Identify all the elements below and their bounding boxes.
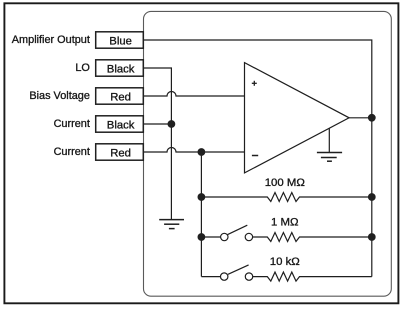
svg-text:Blue: Blue (109, 35, 132, 47)
terminal Bias Voltage (Red) (29, 88, 143, 104)
ground (op-amp) (317, 153, 342, 162)
enclosure frame (144, 11, 392, 296)
svg-text:Red: Red (110, 91, 131, 103)
svg-text:Current: Current (54, 146, 90, 158)
svg-text:1 MΩ: 1 MΩ (271, 217, 299, 229)
wire: Blue terminal to op-amp output (top run + right vertical bus) (144, 40, 372, 277)
svg-text:10 kΩ: 10 kΩ (270, 256, 301, 268)
junction dot: op-amp output / feedback bus (368, 114, 376, 122)
op-amp U1 (245, 63, 350, 173)
terminal Current (Red) (54, 144, 144, 160)
wire: LO to ground bus (vertical #1) (144, 68, 172, 219)
ground (signal bus ground, lower left) (159, 220, 184, 229)
junction dot: feedback bus / 100 MΩ (368, 193, 376, 201)
junction dot: Current Black / ground bus (168, 120, 176, 128)
junction dot: feedback bus / 1 MΩ (368, 233, 376, 241)
wire: op-amp output to feedback bus (349, 117, 372, 119)
switch S1 (1 MΩ branch) (201, 225, 252, 241)
svg-text:Black: Black (107, 119, 135, 131)
resistor 10 kΩ (with leads) (253, 256, 372, 281)
svg-text:Current: Current (54, 118, 90, 130)
svg-text:Black: Black (107, 63, 135, 75)
wire: Current (Black) to ground bus (144, 123, 172, 125)
switch S2 (10 kΩ branch) (201, 265, 252, 280)
wire: op-amp to its ground (328, 128, 330, 152)
op-amp + input marker (252, 81, 257, 86)
terminal LO (Black) (75, 60, 143, 76)
wire: current bus (left vertical, down to 10k row) (200, 152, 202, 277)
op-amp - input marker (252, 155, 258, 157)
junction dot: Current Red / current bus (198, 148, 206, 156)
junction dot: current bus / 100 MΩ (198, 193, 206, 201)
svg-text:Red: Red (110, 147, 131, 159)
terminal Current (Black) (54, 116, 144, 132)
wire: Current (Red) to op-amp - input (hop over ground bus) (144, 148, 245, 153)
junction dot: current bus / 1 MΩ (198, 233, 206, 241)
wire: Bias Voltage to op-amp + input (hop over ground bus) (144, 92, 245, 97)
svg-text:Bias Voltage: Bias Voltage (29, 90, 90, 102)
resistor 100 MΩ (with leads) (201, 177, 371, 202)
svg-text:100 MΩ: 100 MΩ (265, 177, 306, 189)
svg-text:LO: LO (75, 62, 90, 74)
svg-text:Amplifier Output: Amplifier Output (12, 34, 90, 46)
resistor 1 MΩ (with leads) (253, 217, 372, 242)
terminal Amplifier Output (Blue) (12, 32, 143, 48)
